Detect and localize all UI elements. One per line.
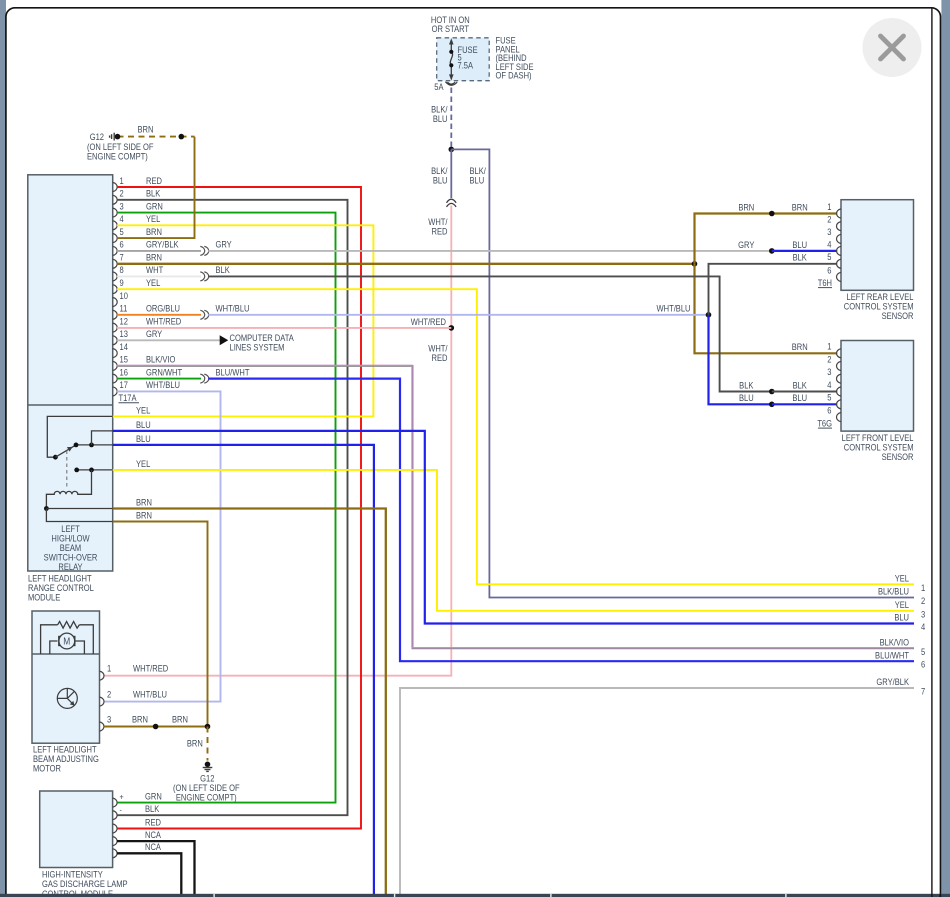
svg-text:GRY/BLK: GRY/BLK <box>146 239 179 250</box>
rear sensor pin arcs <box>837 209 842 282</box>
svg-text:16: 16 <box>120 367 129 378</box>
svg-text:MOTOR: MOTOR <box>33 763 61 774</box>
svg-text:RELAY: RELAY <box>58 561 83 572</box>
svg-text:RED: RED <box>145 817 161 828</box>
close button <box>863 18 922 77</box>
wire GRN/WHT pin16 to splice <box>117 378 201 380</box>
svg-text:BRN: BRN <box>136 497 152 508</box>
svg-text:WHT/RED: WHT/RED <box>133 663 168 674</box>
splice node WHT/RED with pin12 wire <box>449 325 455 331</box>
svg-text:BRN: BRN <box>792 202 808 213</box>
motor internal resistor loop <box>41 625 94 654</box>
wire BLK splice to front sensor pin4 <box>208 276 772 391</box>
svg-text:RED: RED <box>432 352 448 363</box>
relay blade arrowhead <box>67 447 73 452</box>
splice node BLK front <box>769 389 775 395</box>
relay switch pivot node <box>53 455 58 460</box>
svg-text:11: 11 <box>120 303 128 314</box>
svg-text:MODULE: MODULE <box>28 592 61 603</box>
svg-text:GRN: GRN <box>146 201 163 212</box>
left headlight beam adjusting motor box <box>32 611 100 743</box>
wire RED pin1 to HID module <box>117 187 361 829</box>
junction node BRN ground <box>205 724 211 730</box>
svg-text:3: 3 <box>921 609 926 620</box>
wire BLU into front sensor pin5 <box>772 403 837 405</box>
svg-text:BLU: BLU <box>136 419 151 430</box>
label FUSE 5 7.5A <box>458 44 479 71</box>
module pin arcs 1-17 <box>113 182 118 396</box>
wire NCA 2 to bottom <box>117 853 181 897</box>
left headlight range control module box <box>28 175 113 571</box>
right page-edge strip <box>941 0 950 894</box>
wire BLK/BLU left branch down to inline connector <box>450 149 452 198</box>
right side row labels <box>875 573 909 688</box>
wire GRY/BLK from bottom edge to right row 7 <box>400 688 914 897</box>
wire YEL relay to right row 3 <box>113 470 914 611</box>
label LEFT FRONT LEVEL CONTROL SYSTEM SENSOR <box>842 432 914 462</box>
splice node GRY/BLU <box>769 248 775 254</box>
svg-text:5: 5 <box>921 646 926 657</box>
svg-text:BRN: BRN <box>172 714 188 725</box>
wire BLK pin2 to HID module <box>117 200 348 815</box>
wire BLU relay row1 to right row 4 <box>113 431 914 624</box>
svg-text:WHT/BLU: WHT/BLU <box>146 380 180 391</box>
label LEFT HIGH/LOW BEAM SWITCH-OVER RELAY <box>44 523 98 572</box>
svg-text:WHT/RED: WHT/RED <box>411 317 446 328</box>
motor pin arcs 1-3 <box>100 671 105 731</box>
svg-text:2: 2 <box>827 214 832 225</box>
svg-text:BLU: BLU <box>792 393 807 404</box>
svg-text:BLU/WHT: BLU/WHT <box>875 650 909 661</box>
fuse F5 7.5A element <box>450 43 452 76</box>
svg-text:M: M <box>63 636 70 647</box>
svg-text:OF DASH): OF DASH) <box>496 70 532 81</box>
svg-text:RED: RED <box>146 175 162 186</box>
svg-text:1: 1 <box>921 582 926 593</box>
wire GRN pin3 to HID module <box>117 213 336 803</box>
motor brush brackets <box>58 636 60 646</box>
svg-text:GRY: GRY <box>146 328 163 339</box>
wire BRN dashed to ground G12 (top) <box>118 136 195 138</box>
junction node WHT/BLU <box>706 312 712 318</box>
wire BLK/BLU right branch down to right row 2 <box>451 149 914 597</box>
svg-text:WHT: WHT <box>146 265 163 276</box>
svg-text:8: 8 <box>120 265 125 276</box>
label WHT/RED (upper) <box>428 216 448 236</box>
bottom dark bar <box>0 894 950 897</box>
svg-text:YEL: YEL <box>895 599 910 610</box>
relay coil <box>46 470 91 509</box>
svg-text:GRY/BLK: GRY/BLK <box>876 677 909 688</box>
svg-text:BLK: BLK <box>146 188 161 199</box>
svg-text:-: - <box>120 805 123 815</box>
wire BLK rear sensor pin5 to junction <box>709 264 838 315</box>
svg-text:LINES SYSTEM: LINES SYSTEM <box>230 342 285 353</box>
svg-text:GRY: GRY <box>216 239 233 250</box>
svg-text:BRN: BRN <box>136 510 152 521</box>
label FUSE PANEL (BEHIND LEFT SIDE OF DASH) <box>496 35 534 81</box>
svg-text:GRN/WHT: GRN/WHT <box>146 367 182 378</box>
wire BLK/VIO pin15 to right row 5 <box>117 366 914 648</box>
svg-text:BLU/WHT: BLU/WHT <box>216 367 250 378</box>
svg-text:BLU: BLU <box>894 612 909 623</box>
svg-text:BLU: BLU <box>739 393 754 404</box>
svg-text:BLU: BLU <box>136 433 151 444</box>
svg-text:YEL: YEL <box>146 277 161 288</box>
svg-text:1: 1 <box>827 341 832 352</box>
svg-text:SENSOR: SENSOR <box>882 310 914 321</box>
svg-text:BLU: BLU <box>792 239 807 250</box>
relay internal BRN1 line <box>46 508 112 510</box>
fuse panel box (dashed) <box>437 38 490 81</box>
motor M circle <box>59 633 75 649</box>
svg-text:14: 14 <box>120 341 129 352</box>
svg-text:6: 6 <box>120 239 125 250</box>
ground G12 bottom symbol <box>205 762 211 768</box>
high-intensity gas discharge lamp control module box <box>40 791 113 868</box>
svg-text:OR START: OR START <box>432 23 469 34</box>
svg-text:2: 2 <box>120 188 125 199</box>
svg-text:3: 3 <box>107 714 112 725</box>
svg-text:BLU: BLU <box>433 175 448 186</box>
wire YEL pin4 to relay feed <box>113 225 374 416</box>
module pin wire-color labels <box>146 175 182 390</box>
splice node BRN rear <box>769 211 775 217</box>
wire BRN up to rear sensor pin1 <box>695 214 838 264</box>
label HIGH-INTENSITY GAS DISCHARGE LAMP CONTROL MODULE <box>42 869 128 897</box>
relay internal BRN2 line <box>46 509 112 522</box>
wire BRN relay row1 to bottom edge <box>113 509 386 897</box>
svg-text:BRN: BRN <box>738 202 754 213</box>
wire GRY/BLK pin6 to splice <box>117 250 201 252</box>
arrow computer data lines <box>220 335 229 345</box>
svg-text:ORG/BLU: ORG/BLU <box>146 303 180 314</box>
wire BRN pin5 up to G12 <box>117 137 195 239</box>
svg-text:BLU: BLU <box>433 113 448 124</box>
wire GRY splice to rear sensor splice dot <box>208 250 772 252</box>
svg-text:4: 4 <box>921 621 926 632</box>
left rear level control system sensor box <box>841 200 914 291</box>
svg-text:WHT/BLU: WHT/BLU <box>657 303 691 314</box>
svg-text:T6H: T6H <box>818 277 832 288</box>
svg-text:5A: 5A <box>434 81 444 92</box>
svg-text:2: 2 <box>827 354 832 365</box>
svg-text:5: 5 <box>827 392 832 403</box>
svg-text:2: 2 <box>107 689 112 700</box>
svg-text:6: 6 <box>921 659 926 670</box>
svg-text:7.5A: 7.5A <box>458 60 474 71</box>
label LEFT HEADLIGHT RANGE CONTROL MODULE <box>28 573 94 603</box>
splice S4 arcs <box>200 374 208 383</box>
connector cup under fuse <box>445 82 457 86</box>
svg-text:NCA: NCA <box>145 841 161 852</box>
label HOT IN ON OR START <box>431 15 470 34</box>
wire BRN relay row2 to motor BRN junction <box>113 522 208 727</box>
front sensor wire labels <box>739 342 808 404</box>
svg-text:T6G: T6G <box>817 418 832 429</box>
svg-text:YEL: YEL <box>136 458 151 469</box>
svg-text:2: 2 <box>921 595 926 606</box>
svg-text:BRN: BRN <box>146 252 162 263</box>
wire BRN down to front sensor pin1 <box>695 264 838 354</box>
relay upper contact line to BLU wires <box>76 444 113 446</box>
svg-text:4: 4 <box>120 213 125 224</box>
svg-text:3: 3 <box>120 201 125 212</box>
svg-text:BLK: BLK <box>216 265 231 276</box>
left page-edge strip <box>0 0 6 894</box>
svg-text:1: 1 <box>107 663 112 674</box>
svg-text:ENGINE COMPT): ENGINE COMPT) <box>87 151 148 162</box>
motor position sensor symbol <box>57 688 77 708</box>
svg-text:YEL: YEL <box>146 213 161 224</box>
splice S3 arcs <box>200 310 208 319</box>
front sensor pin numbers <box>827 341 832 416</box>
svg-text:BLK: BLK <box>145 803 160 814</box>
junction node BRN <box>692 261 698 267</box>
svg-text:SENSOR: SENSOR <box>882 451 914 462</box>
svg-text:6: 6 <box>827 265 832 276</box>
svg-text:ENGINE COMPT): ENGINE COMPT) <box>176 792 237 803</box>
wire WHT/RED pin12 to splice dot <box>117 327 451 329</box>
svg-text:5: 5 <box>827 252 832 263</box>
svg-text:15: 15 <box>120 354 129 365</box>
inline connector C (double arc) on vertical wire <box>447 199 457 207</box>
module pin numbers <box>120 175 129 390</box>
wire NCA 1 to bottom <box>117 841 195 897</box>
front sensor pin arcs <box>837 349 842 422</box>
motor M leads <box>50 641 85 654</box>
label LEFT REAR LEVEL CONTROL SYSTEM SENSOR <box>844 291 914 321</box>
relay lower contact line to YEL wire <box>77 469 113 471</box>
svg-text:NCA: NCA <box>145 829 161 840</box>
inner right border line <box>931 8 933 894</box>
svg-text:GRY: GRY <box>738 239 755 250</box>
wire WHT/BLU pin17 to motor pin2 <box>104 391 221 701</box>
rear sensor wire labels <box>738 202 807 263</box>
svg-text:BLU: BLU <box>470 175 485 186</box>
wire BLU junction down to front sensor pin5 <box>709 315 772 405</box>
svg-text:5: 5 <box>120 226 125 237</box>
splice S2 arcs <box>200 272 208 281</box>
svg-text:3: 3 <box>827 227 832 238</box>
svg-text:10: 10 <box>120 290 129 301</box>
rear sensor pin numbers <box>827 201 832 276</box>
svg-text:BRN: BRN <box>792 342 808 353</box>
svg-text:17: 17 <box>120 380 129 391</box>
label LEFT HEADLIGHT BEAM ADJUSTING MOTOR <box>33 744 99 774</box>
splice S1 arcs <box>200 246 208 255</box>
svg-text:BLK/VIO: BLK/VIO <box>146 354 176 365</box>
wire ORG/BLU pin11 to splice <box>117 314 201 316</box>
svg-text:4: 4 <box>827 239 832 250</box>
svg-text:12: 12 <box>120 316 129 327</box>
wire BLK/BLU dashed from fuse <box>450 88 452 147</box>
wire WHT/RED vertical down to motor pin 1 <box>104 206 451 676</box>
svg-text:BLK/BLU: BLK/BLU <box>878 586 909 597</box>
wire WHT/BLU splice to junction <box>208 314 708 316</box>
label WHT/RED (below splice) <box>428 343 448 363</box>
label G12 (ON LEFT SIDE OF ENGINE COMPT) bottom <box>173 773 240 803</box>
relay switch blade <box>55 445 76 457</box>
svg-text:YEL: YEL <box>136 405 151 416</box>
ground G12 top symbol <box>110 133 115 141</box>
module divider line <box>28 404 113 406</box>
wire YEL pin9 to right row 1 <box>117 289 914 584</box>
svg-text:7: 7 <box>120 252 125 263</box>
svg-text:13: 13 <box>120 328 129 339</box>
wire BLU/WHT splice to right row 6 <box>208 379 914 662</box>
label BLK/BLU (upper) <box>431 104 448 124</box>
wire BRN pin7 to junction <box>117 263 695 265</box>
wire WHT pin8 to splice <box>117 275 201 277</box>
svg-text:+: + <box>120 792 125 802</box>
wire BRN motor pin3 to junction <box>104 726 208 728</box>
svg-text:BLK/VIO: BLK/VIO <box>880 637 910 648</box>
relay mechanical link (dashed) <box>66 451 68 490</box>
svg-text:BLK: BLK <box>793 252 808 263</box>
post-splice labels <box>216 239 250 378</box>
svg-text:BRN: BRN <box>187 738 203 749</box>
svg-text:BRN: BRN <box>132 714 148 725</box>
junction node at BLK/BLU split <box>449 147 455 153</box>
svg-text:7: 7 <box>921 686 926 697</box>
svg-text:GRN: GRN <box>145 791 162 802</box>
HID pin labels <box>145 791 162 853</box>
ground G12 top node dots <box>115 134 121 140</box>
svg-text:WHT/BLU: WHT/BLU <box>133 689 167 700</box>
svg-text:3: 3 <box>827 366 832 377</box>
wire GRY pin13 to computer data arrow <box>117 339 220 341</box>
svg-text:BLK: BLK <box>739 380 754 391</box>
wire BLU into rear sensor pin4 <box>772 250 837 252</box>
splice node BRN motor <box>153 724 159 730</box>
wire BRN dashed to ground G12 (bottom) <box>207 727 209 761</box>
svg-text:WHT/RED: WHT/RED <box>146 316 181 327</box>
resistor zigzag <box>58 622 80 629</box>
relay coil-left junction node <box>44 506 49 511</box>
right side row pin numbers <box>921 582 926 697</box>
label BLK/BLU pair (lower) <box>431 165 448 185</box>
svg-text:YEL: YEL <box>895 573 910 584</box>
svg-text:6: 6 <box>827 405 832 416</box>
svg-text:BRN: BRN <box>146 226 162 237</box>
wire BLK into front sensor pin4 <box>772 391 837 393</box>
left front level control system sensor box <box>841 341 914 432</box>
svg-text:4: 4 <box>827 379 832 390</box>
svg-text:BRN: BRN <box>138 124 154 135</box>
svg-text:T17A: T17A <box>119 392 137 403</box>
splice node BLU front <box>769 402 775 408</box>
HID pin arcs <box>113 798 118 858</box>
wire BLU relay row2 to bottom edge <box>113 445 374 897</box>
svg-text:9: 9 <box>120 277 125 288</box>
svg-text:1: 1 <box>827 201 832 212</box>
motor box divider <box>32 653 100 655</box>
svg-text:1: 1 <box>120 175 125 186</box>
svg-text:RED: RED <box>432 226 448 237</box>
relay internal: feed line from YEL to switch pivot <box>47 416 112 457</box>
svg-text:BLK: BLK <box>793 380 808 391</box>
svg-text:WHT/BLU: WHT/BLU <box>216 303 250 314</box>
